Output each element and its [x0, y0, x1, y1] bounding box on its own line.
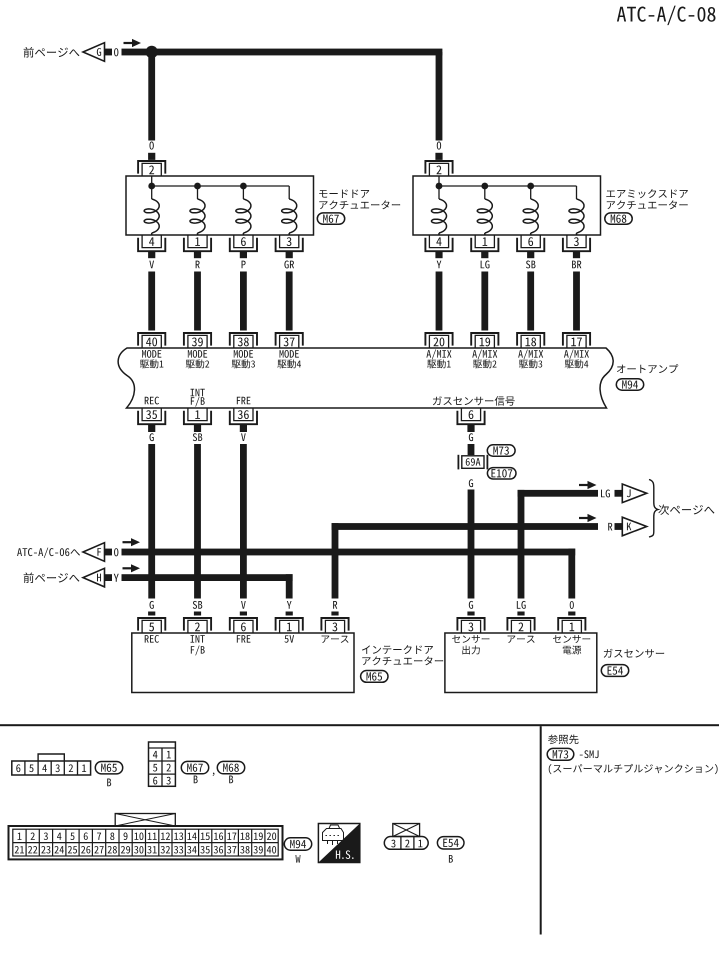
direction arrow F — [123, 538, 141, 546]
label ガスセンサー — [604, 649, 664, 658]
coil M67-3 — [236, 199, 251, 235]
page-out triangle K — [622, 517, 646, 536]
amp pin 39 — [184, 333, 211, 348]
label エアミックスドア アクチュエーター M68 — [606, 189, 688, 209]
label -SMJ — [580, 750, 599, 758]
M65 pin 2 — [184, 618, 211, 633]
actuator box M68 — [413, 176, 601, 235]
wire Y horizontal — [122, 574, 293, 581]
brace 次ページへ — [649, 480, 714, 538]
oval M65 footer — [95, 762, 122, 774]
stub LG — [615, 490, 623, 497]
stub below M67 pin + wire GR — [284, 252, 294, 331]
oval M94 footer — [284, 838, 311, 850]
E54 pin 1 — [558, 618, 585, 633]
amp pin 37 — [276, 333, 303, 348]
stub + label V below amp — [240, 425, 247, 599]
page-in arrow G (前ページへ) — [24, 43, 119, 62]
label B under M65 — [107, 779, 111, 787]
label G above M65 — [148, 601, 155, 616]
stub below M67 pin + wire P — [240, 252, 247, 331]
connector pin 3 M68 — [563, 235, 590, 251]
wire O top horizontal — [122, 49, 443, 56]
wire O down to M68 pin2 — [436, 52, 443, 141]
oval M73 footer — [547, 748, 574, 760]
oval M68 — [605, 213, 632, 224]
connector pin 6 M67 — [230, 235, 257, 251]
connector pin 2 M68 — [425, 161, 452, 176]
oval E107 — [487, 468, 516, 479]
connector pin 1 M67 — [184, 235, 211, 251]
wire O vertical to E54 — [568, 549, 575, 599]
connector pin 6 M68 — [517, 235, 544, 251]
page-out triangle J — [622, 484, 646, 503]
connector pin 1 M68 — [471, 235, 498, 251]
label アース E54 — [508, 636, 535, 643]
label G above E54 — [467, 601, 474, 616]
amp pin 6 — [457, 408, 484, 424]
stub R — [615, 523, 623, 530]
connector pin 3 M67 — [276, 235, 303, 251]
label 0 above M68 — [437, 142, 441, 150]
oval M73 — [487, 445, 515, 456]
label R above M65 — [331, 601, 338, 615]
stub + label G below amp — [148, 425, 155, 599]
wire G 69A to E54 — [468, 490, 475, 599]
M65 pin 6 — [230, 618, 257, 633]
label MODE 駆動4 — [277, 350, 301, 368]
label REC M65 — [145, 635, 159, 643]
label INT F/B — [191, 389, 205, 407]
oval M94 — [616, 379, 643, 390]
amp pin 35 — [138, 408, 165, 424]
label REC — [145, 397, 159, 405]
stub above M68 pin2 — [435, 153, 442, 160]
wire R horizontal — [332, 523, 598, 530]
stub below M68 pin + wire Y — [435, 252, 442, 331]
label V above M65 — [240, 601, 247, 615]
connector pin 4 M67 — [138, 235, 165, 251]
connector face E54 — [384, 824, 428, 850]
actuator box M67 — [126, 176, 314, 235]
oval M67 — [317, 213, 344, 224]
junction top — [146, 46, 158, 58]
amp pin 40 — [138, 333, 165, 348]
coil M68-3 — [523, 199, 538, 235]
label B under E54 — [449, 855, 453, 863]
label MODE 駆動2 — [186, 350, 209, 368]
amp pin 36 — [230, 408, 257, 424]
label センサー電源 — [553, 635, 590, 654]
label W under M94 — [295, 855, 300, 863]
label センサー出力 — [452, 635, 489, 654]
direction arrow H — [123, 564, 141, 572]
label Y above M65 — [286, 601, 293, 615]
page-in arrow H (前ページへ) — [24, 568, 119, 587]
direction arrow R — [579, 514, 597, 522]
stub above M67 pin2 — [148, 153, 155, 160]
connector face M65 — [12, 754, 91, 775]
label 5V M65 — [284, 635, 294, 643]
label インテークドア アクチュエーター — [362, 645, 443, 665]
label MODE 駆動3 — [232, 350, 255, 368]
oval M67 footer — [181, 761, 208, 773]
E54 pin 3 — [457, 618, 484, 633]
M65 pin 3 — [321, 618, 348, 633]
stub + label G below amp pin6 — [467, 425, 474, 456]
label R — [608, 523, 612, 531]
label ガスセンサー信号 — [433, 396, 515, 406]
vertical divider — [540, 726, 542, 934]
connector face M67/M68 — [149, 742, 176, 786]
label A/MIX 駆動2 — [472, 350, 497, 369]
stub below M67 pin + wire R — [194, 252, 201, 331]
separator line — [0, 724, 719, 726]
label 0 above E54 — [568, 601, 575, 615]
oval M65 — [361, 671, 388, 683]
coil M67-2 — [190, 199, 205, 235]
oval E54 — [601, 665, 628, 677]
E54 pin 2 — [507, 618, 534, 633]
coil M68-2 — [477, 199, 492, 235]
page-in arrow F (ATC-A/C-06へ) — [17, 543, 118, 562]
box M65 — [132, 633, 354, 693]
direction arrow top — [124, 39, 142, 47]
label FRE — [237, 397, 251, 404]
amp pin 18 — [517, 333, 544, 348]
internal bus M67 — [148, 176, 289, 199]
wire R vertical — [332, 523, 339, 598]
wire Y vertical to M65 — [286, 574, 293, 598]
label A/MIX 駆動1 — [426, 350, 451, 369]
label B under M68 — [229, 776, 233, 784]
label A/MIX 駆動4 — [564, 350, 589, 369]
label スーパーマルチプルジャンクション — [549, 764, 718, 774]
coil M67-4 — [282, 199, 297, 235]
label SB above M65 — [193, 601, 203, 616]
stub below M68 pin + wire BR — [572, 252, 581, 331]
label 参照先 — [548, 734, 579, 744]
amp pin 1 — [184, 408, 211, 424]
label B under M67 — [194, 776, 198, 784]
connector face M94 — [9, 814, 283, 860]
stub below M68 pin + wire LG — [481, 252, 490, 331]
auto amp box M94 — [118, 348, 613, 408]
coil M68-1 — [432, 199, 447, 235]
wire LG horizontal — [518, 490, 598, 497]
amp pin 38 — [230, 333, 257, 348]
label FRE M65 — [237, 635, 251, 642]
M65 pin 5 — [138, 618, 165, 633]
H.S. mark — [318, 824, 359, 863]
label G below 69A — [469, 479, 473, 487]
direction arrow LG — [579, 481, 597, 489]
label モードドア アクチュエーター M67 — [319, 189, 400, 209]
oval M68 footer — [217, 761, 244, 773]
wire O down to M67 pin2 — [148, 52, 155, 141]
amp pin 20 — [425, 333, 452, 348]
amp pin 19 — [471, 333, 498, 348]
title ATC-A/C-08 — [617, 6, 716, 25]
label INT F/B M65 — [191, 635, 205, 655]
M65 pin 1 — [276, 618, 303, 633]
comma — [213, 773, 215, 776]
connector 69A — [458, 455, 487, 470]
label 0 above M67 — [149, 142, 153, 150]
coil M67-1 — [144, 199, 159, 235]
label オートアンプ — [617, 364, 678, 373]
label アース M65 — [322, 636, 349, 643]
wire LG vertical — [518, 490, 525, 599]
coil M68-4 — [569, 199, 584, 235]
oval E54 footer — [437, 837, 464, 849]
box E54 — [445, 633, 597, 693]
connector pin 2 M67 — [138, 161, 165, 176]
wire O horizontal — [122, 549, 576, 556]
internal bus M68 — [436, 176, 577, 199]
connector pin 4 M68 — [425, 235, 452, 251]
label A/MIX 駆動3 — [518, 350, 543, 369]
label MODE 駆動1 — [140, 350, 163, 368]
label LG — [601, 490, 610, 498]
amp pin 17 — [563, 333, 590, 348]
stub below M67 pin + wire V — [148, 252, 155, 331]
stub + label SB below amp — [193, 425, 203, 599]
label LG above E54 — [517, 601, 526, 616]
stub below M68 pin + wire SB — [526, 252, 536, 331]
